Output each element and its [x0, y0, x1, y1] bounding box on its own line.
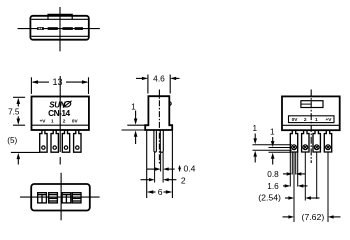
- svg-text:2: 2: [181, 176, 186, 186]
- rear view pin extension lines: [290, 152, 328, 222]
- top view horizontal centerline: [18, 28, 100, 30]
- bottom view body: [31, 184, 90, 211]
- svg-text:1: 1: [315, 117, 318, 123]
- top view contact dash 2: [48, 27, 58, 30]
- bottom view horizontal centerline: [20, 196, 100, 198]
- rear view hole leader lines: [253, 145, 292, 153]
- rear view pin 3: [313, 130, 320, 152]
- rear view pin 1: [290, 130, 297, 152]
- dimension 2: [141, 178, 177, 181]
- front view pin 1: [40, 130, 47, 152]
- top view contact dash 4: [75, 27, 83, 30]
- top view contact dash 1: [37, 27, 44, 30]
- dimension 6: [147, 131, 173, 198]
- svg-text:2: 2: [304, 117, 307, 123]
- dimension (2.54): [285, 196, 320, 199]
- bottom view slot 4: [72, 193, 81, 203]
- svg-text:+V: +V: [40, 118, 47, 123]
- side view ear: [169, 102, 171, 106]
- svg-text:7.5: 7.5: [8, 108, 20, 117]
- dimension 4.6: [136, 75, 180, 94]
- side view pin extension lines: [155, 152, 164, 183]
- svg-text:0.4: 0.4: [184, 163, 196, 173]
- rear view pin 4: [324, 130, 331, 152]
- svg-text:1: 1: [253, 124, 258, 133]
- top view inner seam top: [31, 18, 88, 20]
- side view pin bar 1: [154, 130, 157, 152]
- svg-text:1: 1: [51, 118, 54, 123]
- dimension (5) lower arrow: [17, 153, 21, 165]
- dimension 1.6: [283, 184, 308, 187]
- svg-text:4.6: 4.6: [153, 73, 165, 83]
- svg-text:(7.62): (7.62): [302, 212, 325, 222]
- dimension 13: [31, 77, 88, 94]
- front view SUNX logo X slash: [63, 101, 72, 108]
- top view contact dash 3: [63, 27, 73, 30]
- rear view pin 2: [302, 130, 309, 152]
- bottom view slot 3: [62, 193, 71, 203]
- svg-text:+V: +V: [325, 117, 332, 123]
- top view contact dash 1 white dots: [39, 28, 42, 29]
- rear view body: [282, 96, 340, 130]
- front view pin 2: [51, 130, 58, 152]
- top view inner seam bottom: [31, 35, 88, 37]
- svg-text:1: 1: [270, 128, 275, 137]
- dimension 1 (hole dia): [253, 134, 257, 163]
- front view base line: [32, 124, 89, 126]
- svg-text:2: 2: [63, 118, 66, 123]
- rear view window inner line: [301, 103, 312, 105]
- front view body: [32, 97, 89, 131]
- rear view window: [301, 101, 323, 108]
- svg-text:13: 13: [52, 77, 62, 87]
- svg-text:0.8: 0.8: [267, 170, 279, 179]
- svg-text:0V: 0V: [72, 118, 79, 123]
- dimension (7.62): [283, 215, 341, 218]
- rear view centerline: [310, 90, 312, 164]
- svg-text:(5): (5): [7, 136, 17, 145]
- dimension 1 (side flange): [122, 111, 146, 145]
- top view body: [30, 16, 88, 40]
- dimension (5) extension line at pin tips: [11, 151, 40, 153]
- bottom view slot 2: [49, 193, 58, 203]
- svg-text:1: 1: [131, 102, 136, 111]
- svg-text:(2.54): (2.54): [258, 192, 281, 202]
- front view pin 3: [62, 130, 69, 152]
- top view tab: [48, 14, 72, 19]
- bottom view slot 1: [38, 193, 47, 203]
- side view pin bar 2: [160, 130, 163, 152]
- front view SUNX logo X ellipse: [63, 100, 72, 108]
- front view vertical centerline: [59, 76, 61, 152]
- dimension 0.8: [283, 172, 306, 175]
- rear view base line: [282, 124, 340, 126]
- top view vertical centerline: [59, 7, 61, 51]
- svg-text:6: 6: [158, 187, 163, 197]
- side view centerline: [158, 90, 160, 165]
- svg-text:0V: 0V: [292, 117, 299, 123]
- svg-text:CN-14: CN-14: [48, 108, 70, 118]
- rear view label band: [289, 116, 335, 123]
- bottom view vertical centerline: [60, 173, 62, 221]
- svg-text:1.6: 1.6: [267, 182, 279, 191]
- dimension 1 (hole to tip): [271, 137, 275, 165]
- front view pin 4: [74, 130, 81, 152]
- side view body: [145, 96, 172, 130]
- dimension 0.4: [147, 165, 182, 172]
- dimension 7.5: [13, 97, 25, 125]
- front view centerline lower dash: [59, 157, 61, 165]
